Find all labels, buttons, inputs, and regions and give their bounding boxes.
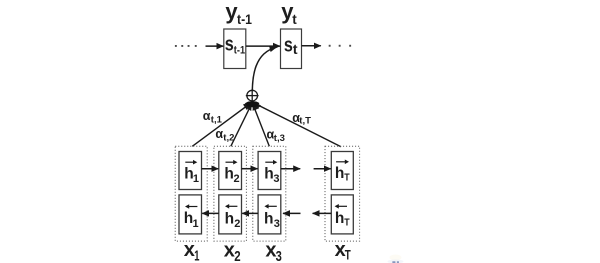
svg-text:3: 3: [274, 218, 280, 230]
backward hidden state box h3: [258, 195, 281, 234]
input label x_3: [265, 240, 281, 263]
attention weight line to column 2: [231, 102, 252, 147]
attention weight line to column T: [254, 101, 342, 147]
encoder column 1 outer dotted box: [175, 146, 207, 241]
forward hidden state box hT: [331, 152, 353, 190]
svg-text:t-1: t-1: [234, 45, 245, 57]
right ellipsis dots: [329, 45, 351, 47]
svg-text:α: α: [203, 109, 211, 123]
encoder column T outer dotted box: [325, 146, 360, 241]
backward arrow h3 to h2: [242, 212, 258, 214]
svg-text:t: t: [293, 41, 298, 57]
forward hidden state box h2: [219, 152, 242, 190]
svg-text:1: 1: [193, 173, 199, 185]
svg-text:s: s: [284, 34, 293, 56]
svg-text:2: 2: [234, 248, 240, 263]
encoder column 3 outer dotted box: [253, 146, 286, 241]
svg-text:h: h: [224, 165, 233, 182]
svg-text:h: h: [335, 165, 344, 182]
svg-text:3: 3: [273, 173, 279, 185]
svg-text:x: x: [184, 239, 195, 261]
left ellipsis dots: [175, 45, 197, 47]
decoder state box s_{t-1}: [224, 29, 246, 69]
backward arrow out of hT: [313, 212, 332, 214]
forward hidden state box h3: [258, 152, 281, 190]
svg-text:T: T: [344, 217, 350, 229]
attention weight line to column 1: [192, 101, 251, 146]
forward arrow h2 to h3: [242, 168, 258, 170]
svg-text:1: 1: [194, 248, 199, 263]
svg-text:t-1: t-1: [237, 11, 252, 27]
input label x_2: [224, 240, 241, 263]
faint watermark smudge bottom right: [388, 255, 404, 263]
svg-text:s: s: [225, 34, 234, 56]
backward hidden state box h2: [219, 195, 242, 234]
svg-text:2: 2: [234, 218, 240, 230]
svg-text:t,3: t,3: [274, 133, 285, 144]
svg-text:2: 2: [234, 173, 240, 185]
label alpha_{t,3}: [267, 127, 285, 144]
svg-text:3: 3: [276, 248, 282, 263]
svg-text:T: T: [344, 172, 350, 184]
svg-text:1: 1: [193, 218, 199, 230]
decoder state box s_t: [281, 29, 302, 69]
svg-text:t,T: t,T: [299, 116, 311, 127]
encoder column 2 outer dotted box: [214, 146, 247, 241]
forward arrow out of h3: [281, 168, 300, 170]
svg-text:h: h: [225, 210, 234, 227]
curved arrow from adder to s_t: [252, 47, 276, 90]
svg-text:t,1: t,1: [211, 114, 223, 125]
forward arrow into hT: [314, 168, 331, 170]
input label x_T: [335, 239, 352, 262]
arrow out of s_t: [302, 45, 321, 47]
input label x_1: [184, 239, 200, 263]
label y_t: [281, 0, 297, 27]
context adder circle-plus: [246, 89, 259, 102]
svg-text:t,2: t,2: [223, 133, 234, 144]
backward hidden state box hT: [331, 195, 353, 234]
svg-text:h: h: [335, 210, 344, 227]
svg-text:t: t: [292, 12, 297, 27]
svg-text:T: T: [345, 247, 352, 262]
label alpha_{t,T}: [292, 111, 311, 127]
arrow into s_{t-1}: [206, 45, 224, 47]
backward arrow into h3: [283, 212, 301, 214]
svg-text:h: h: [264, 210, 273, 227]
label y_{t-1}: [225, 0, 252, 27]
svg-text:h: h: [264, 165, 273, 182]
attention weight line to column 3: [253, 102, 270, 147]
label alpha_{t,1}: [203, 109, 223, 125]
adder input junction blob: [245, 101, 259, 107]
wire s_{t-1} to s_t: [246, 45, 280, 47]
forward arrow h1 to h2: [202, 168, 219, 170]
label alpha_{t,2}: [215, 127, 234, 144]
svg-text:α: α: [215, 127, 223, 141]
forward hidden state box h1: [179, 152, 202, 190]
backward hidden state box h1: [179, 195, 202, 234]
backward arrow h2 to h1: [202, 212, 219, 214]
